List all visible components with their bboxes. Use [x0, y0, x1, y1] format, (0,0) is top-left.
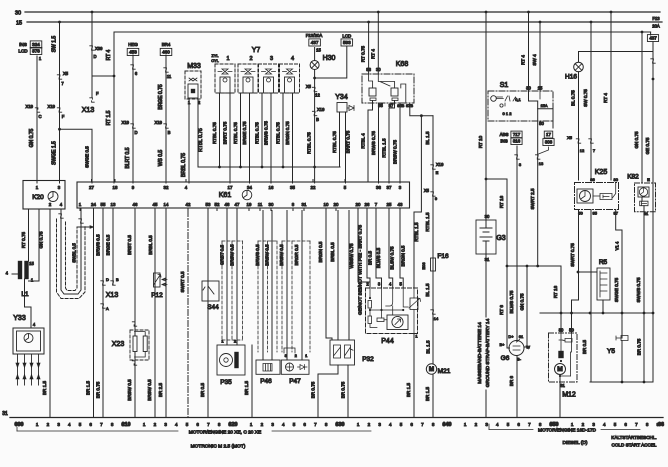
svg-text:31: 31 [2, 411, 8, 417]
fuse F16 [432, 116, 434, 364]
svg-text:K61: K61 [219, 192, 232, 199]
svg-text:48: 48 [225, 202, 230, 207]
motor M21 auxiliary pump [426, 364, 436, 374]
svg-text:X19: X19 [155, 120, 163, 125]
wire - RTBL 4 from K68 85 down [368, 101, 373, 183]
svg-text:D: D [134, 130, 137, 135]
svg-text:SW 4: SW 4 [532, 54, 537, 66]
svg-text:P47: P47 [289, 378, 301, 385]
svg-text:1: 1 [36, 422, 39, 427]
wire - BRRT 0.75 injector 1 to K61 [229, 93, 231, 183]
svg-text:6: 6 [410, 422, 413, 427]
svg-text:V1 4: V1 4 [615, 241, 620, 250]
svg-text:3: 3 [270, 56, 273, 62]
svg-text:BL 1.5: BL 1.5 [425, 283, 430, 297]
svg-text:453: 453 [129, 50, 137, 55]
svg-text:B: B [168, 130, 171, 135]
svg-text:Y34: Y34 [335, 94, 348, 101]
svg-text:H30: H30 [323, 55, 336, 62]
svg-text:F16: F16 [437, 253, 449, 260]
wire - shielded pair K20 pin 4 to K61 pin 1 [61, 209, 81, 294]
svg-text:ZYL: ZYL [212, 54, 219, 58]
node junction X13 drop to RT wire [92, 75, 114, 77]
svg-text:BR 0.5: BR 0.5 [368, 251, 373, 265]
svg-text:87: 87 [389, 103, 394, 108]
svg-text:BRGE 0.75: BRGE 0.75 [158, 84, 164, 110]
svg-text:CYL: CYL [211, 59, 218, 63]
svg-text:2: 2 [261, 422, 264, 427]
svg-text:X19: X19 [48, 104, 56, 109]
wire - shield screen dashed [57, 219, 86, 299]
wire - BR 1.5 from K20 pin 2 to ground bus [49, 209, 51, 417]
svg-text:P32: P32 [362, 356, 374, 363]
svg-text:DIESEL (D): DIESEL (D) [563, 440, 588, 446]
svg-text:SWRT 0.75: SWRT 0.75 [570, 243, 575, 267]
svg-text:42: 42 [186, 202, 191, 207]
wire - P44 internal links [370, 288, 414, 334]
svg-text:RTBL 0.75: RTBL 0.75 [276, 122, 281, 144]
wire - BL 1.5 from K68 87B feeding F16 column [410, 103, 433, 116]
svg-text:378: 378 [32, 49, 40, 54]
svg-text:14: 14 [434, 316, 439, 321]
svg-text:F: F [96, 91, 99, 96]
svg-text:WSSW 0.75: WSSW 0.75 [349, 243, 354, 268]
sensor P32 coolant temperature sender [326, 211, 332, 341]
svg-text:22: 22 [311, 185, 316, 190]
svg-text:RT 10: RT 10 [478, 135, 483, 148]
svg-text:BR4: BR4 [162, 42, 171, 47]
svg-text:2: 2 [368, 422, 371, 427]
wire - BRGE 0.75 injector 2 to K61 [249, 93, 251, 183]
svg-text:BRBL 0.75: BRBL 0.75 [181, 153, 187, 177]
svg-text:3: 3 [164, 422, 167, 427]
wire - SWRT 0.75 from K25 to starter solenoid 50 [572, 210, 579, 334]
svg-text:MOTOR/ENGINE 20 XE, C 20 XE: MOTOR/ENGINE 20 XE, C 20 XE [189, 430, 261, 436]
svg-text:36: 36 [376, 185, 381, 190]
svg-text:Y5: Y5 [607, 348, 615, 355]
svg-text:18: 18 [113, 185, 118, 190]
svg-text:BRSW 0.5: BRSW 0.5 [147, 379, 152, 401]
svg-text:8: 8 [646, 422, 649, 427]
sensor P12 temperature sensor [154, 211, 156, 418]
svg-text:7: 7 [635, 422, 638, 427]
svg-text:X5: X5 [63, 71, 69, 76]
wire - Y33 spark outputs with arrows [17, 354, 19, 385]
wire - diesel junction rail top [540, 312, 653, 314]
svg-text:S1: S1 [500, 82, 509, 89]
svg-text:BLSW 0.75: BLSW 0.75 [390, 246, 395, 270]
svg-text:F: F [62, 114, 65, 119]
wire - RTBL 0.75 from Y34 to injector rail [339, 112, 341, 167]
svg-text:H16: H16 [565, 74, 577, 81]
wire - BRBL 0.75 from M33 pin 1 to K61 pin 4 [188, 99, 190, 183]
svg-text:2: 2 [47, 422, 50, 427]
wire - BRWS 0.75 from K68 85 to K61 pin 36 [378, 103, 380, 183]
wire - GN 0.75 from fused line to K82 [641, 33, 643, 183]
svg-text:16: 16 [269, 185, 274, 190]
svg-text:47: 47 [235, 202, 240, 207]
svg-text:X13: X13 [106, 292, 119, 299]
svg-text:32: 32 [164, 185, 169, 190]
svg-text:RT 16: RT 16 [553, 285, 558, 298]
svg-text:SWBL 0.5: SWBL 0.5 [72, 243, 77, 263]
svg-text:6: 6 [624, 422, 627, 427]
svg-text:50: 50 [569, 328, 574, 333]
svg-text:K68: K68 [396, 61, 409, 68]
svg-text:SW 0.75: SW 0.75 [583, 89, 588, 107]
svg-text:RTBL 0.75: RTBL 0.75 [212, 122, 217, 144]
svg-text:2: 2 [154, 422, 157, 427]
svg-text:31: 31 [560, 383, 565, 388]
wire - M12 ground to bus [559, 376, 561, 417]
svg-text:BL 0.75: BL 0.75 [571, 90, 576, 106]
svg-text:RT 6: RT 6 [499, 305, 504, 315]
svg-text:BRSW 0.75: BRSW 0.75 [393, 140, 398, 164]
svg-text:13: 13 [111, 202, 116, 207]
svg-text:85: 85 [592, 211, 597, 216]
node K61 top pin numbers [91, 180, 93, 183]
generator G6 [509, 341, 524, 356]
svg-text:E03: E03 [421, 262, 426, 270]
svg-text:G6: G6 [501, 355, 510, 362]
svg-text:31: 31 [485, 257, 490, 262]
svg-text:K25: K25 [595, 169, 608, 176]
svg-text:M: M [429, 366, 434, 373]
svg-text:M12: M12 [562, 392, 576, 399]
svg-text:12: 12 [315, 93, 320, 98]
wire - BRGN 0.75 injector 4 to K61 [292, 93, 294, 183]
wire - RT 4 / RT 1.5 from fused line to K61 pin 18 [113, 32, 115, 183]
svg-text:BRGE 0.75: BRGE 0.75 [242, 121, 247, 145]
wire - bus 30 drop to connector X39 and X13 pin F [91, 11, 94, 14]
wire - SWRT 2.5 from S1 50 to starter circuit [537, 121, 539, 266]
svg-text:0 1 2: 0 1 2 [503, 111, 513, 116]
wire - BLWS 0.75 to generator [516, 146, 518, 341]
svg-text:M: M [557, 366, 563, 373]
svg-text:8: 8 [325, 422, 328, 427]
svg-text:593: 593 [343, 40, 351, 45]
wire - S1 terminal steps inside switch [529, 91, 538, 121]
svg-text:A: A [106, 306, 109, 311]
wire - BR 6 generator ground [516, 356, 518, 418]
svg-text:20A: 20A [652, 24, 660, 29]
svg-text:RTBL 0.75: RTBL 0.75 [307, 132, 312, 154]
svg-text:SW 1.5: SW 1.5 [52, 36, 58, 53]
svg-text:BR 2.5: BR 2.5 [158, 383, 163, 397]
sensor P47 throttle potentiometer [286, 211, 288, 361]
svg-text:50: 50 [578, 211, 583, 216]
svg-text:MOTOR/ENGINE 16D-17D: MOTOR/ENGINE 16D-17D [538, 428, 597, 434]
svg-text:30: 30 [15, 11, 21, 17]
svg-text:B-: B- [517, 357, 522, 362]
svg-text:K20: K20 [32, 194, 44, 201]
svg-text:HEG: HEG [128, 42, 138, 47]
svg-text:1: 1 [357, 422, 360, 427]
wire - R5 feed [578, 271, 597, 273]
svg-text:L1: L1 [21, 291, 29, 298]
svg-text:RTBL 1.5: RTBL 1.5 [382, 138, 387, 158]
svg-text:C: C [38, 114, 41, 119]
svg-text:15: 15 [316, 48, 321, 53]
svg-text:GN 0.75: GN 0.75 [39, 231, 44, 249]
wire - from LCD 593 joining H30 return [315, 47, 347, 79]
svg-text:BLWS 0.5: BLWS 0.5 [376, 247, 381, 268]
wire - BR 0.5 from K25 85 to ground rail [590, 210, 592, 383]
svg-text:B+: B+ [499, 342, 505, 347]
lamp H16 charge warning [578, 52, 580, 63]
svg-text:RTBL 0.75: RTBL 0.75 [255, 122, 260, 144]
svg-text:F13/20A: F13/20A [306, 33, 323, 38]
wire - RTBL 1.5 from K68 87 to K61 pin 37 [389, 101, 395, 184]
wire - SW 1.5 / SWGE 1.5 from bus 15 to K20 pin 3 [58, 21, 61, 24]
wire - RTBL 0.75 injector 1 supply [219, 93, 221, 167]
sensor P46 coolant temperature sensor [262, 211, 264, 361]
svg-text:RT 16: RT 16 [499, 195, 504, 208]
wire - SWGE 0.5 branch to K61 pin 27 [58, 128, 61, 131]
svg-text:BL 1.5: BL 1.5 [425, 131, 430, 145]
wire - RTBL 0.75 injector 2 supply [240, 93, 242, 167]
svg-text:7: 7 [314, 422, 317, 427]
svg-text:B: B [316, 117, 319, 122]
svg-text:BRGE 0.5: BRGE 0.5 [106, 234, 111, 255]
svg-text:BRGN 0.75: BRGN 0.75 [285, 121, 290, 145]
svg-text:14: 14 [164, 202, 169, 207]
svg-text:E: E [436, 170, 439, 175]
svg-text:X19: X19 [317, 107, 325, 112]
svg-text:X19: X19 [436, 162, 444, 167]
svg-text:15: 15 [16, 21, 22, 27]
wire - BRSW 0.75 from K68 85B to K61 pin 3 [399, 103, 401, 183]
svg-text:37: 37 [387, 185, 392, 190]
wire - K25 87 to Y5 SWGE 0.75 [616, 210, 622, 339]
svg-text:24: 24 [91, 202, 96, 207]
svg-text:630: 630 [336, 422, 345, 428]
svg-text:6: 6 [303, 422, 306, 427]
svg-text:45: 45 [153, 202, 158, 207]
wire - GN 0.75 from K20 to coil L1 terminal 1 [29, 209, 40, 281]
svg-text:50: 50 [539, 121, 544, 126]
svg-text:4: 4 [175, 422, 178, 427]
wire - 308 reference joining starter wire [539, 147, 549, 154]
svg-text:6: 6 [89, 422, 92, 427]
wire - BLRT 0.5 from HEG to K61 pin 9 [132, 55, 134, 183]
svg-text:25: 25 [387, 202, 392, 207]
svg-text:640: 640 [443, 422, 452, 428]
relay K20 ignition module [23, 181, 65, 210]
svg-text:RT 4: RT 4 [603, 93, 608, 103]
svg-text:3: 3 [485, 422, 488, 427]
svg-text:437: 437 [649, 36, 657, 41]
wire - bus 30 horizontal [25, 11, 660, 13]
svg-text:BR 0.75: BR 0.75 [96, 381, 101, 398]
svg-text:3: 3 [378, 422, 381, 427]
svg-text:66: 66 [658, 422, 664, 428]
svg-text:GN 0.75: GN 0.75 [634, 131, 639, 149]
wire - BRRT 0.75 from Y34 to K61 pin 5 [345, 112, 347, 183]
svg-text:RTBL 4: RTBL 4 [361, 133, 366, 149]
svg-text:650: 650 [550, 422, 559, 428]
svg-text:15: 15 [29, 261, 34, 266]
svg-text:RTBL 1.5: RTBL 1.5 [414, 222, 419, 242]
wire - BR 1.5 ground from P44 [413, 334, 415, 418]
svg-text:8: 8 [218, 422, 221, 427]
svg-text:RT 4: RT 4 [370, 49, 375, 59]
svg-text:G3: G3 [496, 235, 505, 242]
svg-text:RT 4: RT 4 [106, 49, 112, 60]
svg-text:27: 27 [89, 185, 94, 190]
wire - RT 0.75 from bus to K68 86 [367, 21, 370, 24]
svg-text:34: 34 [247, 185, 252, 190]
op-amp U1 style box - control unit K61 Motronic ECU [77, 182, 410, 208]
svg-text:Y33: Y33 [13, 315, 26, 322]
wire - RT 4 from bus 30 to K25 30 [610, 11, 613, 14]
svg-text:X39: X39 [95, 46, 103, 51]
wire - fuse feed from supply line [650, 32, 652, 35]
wire - RT 0.75 from K20 to coil L1 terminal 15 [28, 209, 30, 261]
battery G3 [485, 11, 488, 14]
svg-text:SWWS 0.75: SWWS 0.75 [636, 277, 641, 302]
svg-text:KALTSTARTBESCHL.: KALTSTARTBESCHL. [611, 435, 656, 440]
svg-text:SWGE 1.5: SWGE 1.5 [52, 141, 58, 165]
svg-text:M21: M21 [438, 368, 451, 375]
wire - BR 1.5 from K61 pin 24 to ground [93, 211, 95, 418]
wire - H16 feed from bus 15 SW 0.75 [590, 21, 593, 24]
wire - GN 0.75 to generator [524, 266, 527, 347]
svg-text:BRWS 0.75: BRWS 0.75 [371, 131, 376, 155]
svg-text:600: 600 [15, 422, 24, 428]
wire - BRBT 0.5 from K61 pin 46 through X23 to ground [134, 211, 136, 418]
svg-text:15A: 15A [540, 103, 547, 108]
svg-text:WS 0.5: WS 0.5 [158, 150, 164, 167]
svg-text:BR 6: BR 6 [509, 375, 514, 386]
svg-text:30: 30 [485, 214, 490, 219]
svg-text:BRGR 0.5: BRGR 0.5 [294, 244, 299, 265]
svg-text:GROUND STRAP-BATTERY 14: GROUND STRAP-BATTERY 14 [485, 318, 491, 387]
svg-text:19: 19 [247, 202, 252, 207]
svg-text:5: 5 [186, 422, 189, 427]
wire - BR 0.75 grounds from P32 [318, 365, 338, 417]
svg-text:X13: X13 [82, 107, 95, 114]
svg-text:8: 8 [539, 422, 542, 427]
svg-text:RTBL 0.75: RTBL 0.75 [332, 131, 337, 153]
svg-text:BR 1.5: BR 1.5 [42, 381, 47, 395]
svg-text:0,1: 0,1 [515, 97, 521, 102]
svg-text:X23: X23 [112, 341, 125, 348]
svg-text:MASSEBAND-BATTERIE 14: MASSEBAND-BATTERIE 14 [477, 322, 483, 384]
svg-text:K82: K82 [627, 174, 639, 181]
wire - K82 output down [641, 197, 643, 201]
svg-text:3: 3 [57, 422, 60, 427]
svg-text:4: 4 [68, 422, 71, 427]
svg-text:52: 52 [215, 202, 220, 207]
svg-text:6: 6 [517, 422, 520, 427]
svg-text:1: 1 [226, 56, 229, 62]
svg-text:RTBL 0.75: RTBL 0.75 [233, 122, 238, 144]
svg-text:7: 7 [100, 422, 103, 427]
sensor P35 knock sensor with screened cable [226, 211, 228, 346]
svg-text:2: 2 [249, 56, 252, 62]
svg-text:11: 11 [258, 202, 263, 207]
wire - battery feed junctions [507, 265, 561, 267]
svg-text:BRRT 0.75: BRRT 0.75 [346, 130, 351, 153]
svg-text:308: 308 [545, 140, 553, 145]
svg-text:GN 0.75: GN 0.75 [520, 293, 525, 311]
svg-text:4: 4 [603, 422, 606, 427]
svg-text:SWRT 0.5: SWRT 0.5 [180, 271, 185, 292]
svg-text:LCD: LCD [18, 49, 28, 54]
sensor element with slash inside P44 [410, 298, 418, 310]
svg-text:26: 26 [365, 202, 370, 207]
svg-text:RTBL 0.75: RTBL 0.75 [198, 128, 204, 152]
svg-text:E: E [647, 177, 650, 182]
svg-text:INS: INS [19, 42, 27, 47]
wire - BR 2.5 from K61 pin 14 to ground [165, 211, 167, 418]
svg-text:GE 0.75: GE 0.75 [645, 137, 650, 154]
wire - battery positive to starter via RT 16 [485, 178, 488, 181]
svg-text:BRSW 0.5: BRSW 0.5 [265, 244, 270, 266]
svg-text:35: 35 [290, 185, 295, 190]
svg-text:8: 8 [111, 422, 114, 427]
svg-text:GE/NOT BEI/NOT WITH P32 - BRRT: GE/NOT BEI/NOT WITH P32 - BRRT 0.75 [358, 225, 364, 315]
svg-text:SWGE 0.5: SWGE 0.5 [85, 146, 90, 168]
wire - L1 output to distributor Y33 [25, 279, 32, 328]
svg-text:620: 620 [229, 422, 238, 428]
svg-text:ABS: ABS [500, 132, 509, 137]
svg-text:316: 316 [513, 139, 521, 144]
svg-text:R5: R5 [599, 259, 608, 266]
wire - GN 0.75 from instrument to K20 pin 1 [36, 56, 38, 183]
svg-text:53: 53 [206, 202, 211, 207]
wire - SWRT 0.5 screened from K61 pin 42 to ground [187, 211, 189, 418]
svg-text:BRGN 0.5: BRGN 0.5 [318, 241, 323, 262]
svg-text:324: 324 [32, 42, 40, 47]
valve Y5 cold start accelerator [616, 336, 628, 341]
svg-text:RTBL 1.5: RTBL 1.5 [425, 212, 430, 232]
wire - RTBL 0.75 injector 4 supply [282, 93, 284, 167]
svg-text:LCD: LCD [342, 34, 351, 39]
wire - BR 1.5 from M21 to ground [432, 374, 434, 417]
svg-text:P46: P46 [260, 378, 272, 385]
wire - BL 0.75 from H16 to K25 [578, 72, 580, 180]
wire - R5 to junction line [602, 300, 604, 313]
wire - BR 1.5 ground from sensor area [251, 345, 253, 417]
svg-text:P12: P12 [151, 292, 163, 299]
svg-text:RT 4: RT 4 [521, 55, 526, 65]
svg-text:BRSW 0.5: BRSW 0.5 [127, 379, 132, 401]
svg-text:D: D [93, 54, 96, 59]
svg-text:20: 20 [356, 202, 361, 207]
svg-text:P35: P35 [220, 379, 232, 386]
svg-text:1: 1 [143, 422, 146, 427]
svg-text:BRGN 0.5: BRGN 0.5 [401, 245, 406, 266]
svg-text:31: 31 [644, 211, 649, 216]
wire - BRGE 0.5 from K61 pin 13 to X13 [112, 211, 114, 286]
wire - fused supply line from X13 area to right fuse [114, 31, 651, 33]
svg-text:X5: X5 [567, 135, 573, 140]
lamp H30 oil pressure warning [314, 48, 316, 61]
svg-text:43: 43 [398, 202, 403, 207]
wire - bus 15 horizontal [27, 21, 662, 23]
svg-text:6: 6 [196, 422, 199, 427]
svg-text:COLD START ACCEL: COLD START ACCEL [612, 443, 657, 448]
svg-text:X19: X19 [26, 104, 34, 109]
svg-text:5: 5 [507, 422, 510, 427]
svg-text:7: 7 [421, 422, 424, 427]
svg-text:RT 1.5: RT 1.5 [106, 110, 112, 125]
wire - RTBL supply rail for injectors [198, 166, 340, 168]
wire - diesel ground rail [590, 381, 653, 383]
svg-text:BR 0.5: BR 0.5 [582, 340, 587, 354]
